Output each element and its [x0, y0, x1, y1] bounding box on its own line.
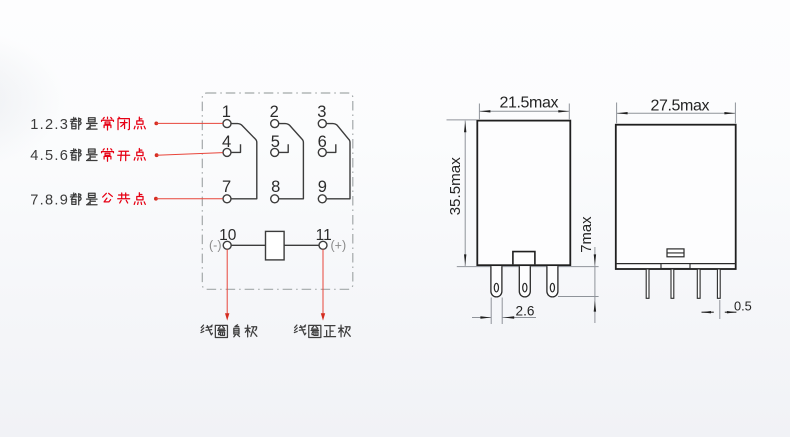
svg-text:3: 3	[317, 103, 326, 121]
svg-text:5: 5	[271, 133, 280, 151]
svg-text:21.5max: 21.5max	[500, 95, 559, 112]
svg-text:4: 4	[222, 133, 231, 151]
svg-text:8: 8	[271, 178, 280, 196]
svg-text:35.5max: 35.5max	[447, 157, 464, 216]
svg-text:0.5: 0.5	[734, 298, 752, 313]
svg-text:2: 2	[270, 103, 279, 121]
svg-text:11: 11	[316, 227, 332, 244]
svg-text:27.5max: 27.5max	[651, 98, 710, 115]
svg-text:7max: 7max	[579, 216, 595, 253]
svg-text:1: 1	[222, 103, 231, 121]
svg-text:7.8.9: 7.8.9	[30, 192, 69, 208]
svg-text:(+): (+)	[331, 238, 347, 252]
svg-text:4.5.6: 4.5.6	[30, 148, 69, 164]
svg-text:1.2.3: 1.2.3	[30, 117, 69, 133]
svg-text:10: 10	[219, 227, 237, 244]
svg-text:(-): (-)	[209, 238, 222, 252]
svg-text:2.6: 2.6	[516, 304, 535, 319]
svg-text:7: 7	[222, 178, 231, 196]
svg-text:6: 6	[318, 133, 327, 151]
svg-text:9: 9	[318, 178, 327, 196]
